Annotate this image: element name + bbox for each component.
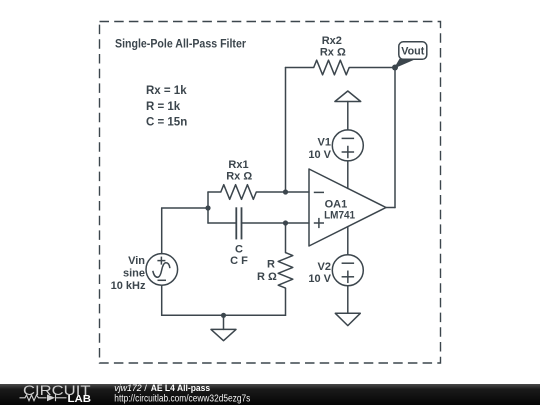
- resistor Rx1: [221, 185, 256, 200]
- wire: [347, 102, 349, 130]
- footer bar: [0, 384, 540, 405]
- wire: [207, 192, 209, 223]
- node junction: [283, 220, 288, 225]
- svg-text:http://circuitlab.com/ceww32d5: http://circuitlab.com/ceww32d5ezg7s: [114, 394, 250, 405]
- svg-text:10 kHz: 10 kHz: [111, 280, 146, 292]
- wire: [386, 207, 395, 209]
- ground: [335, 313, 360, 325]
- svg-text:Single-Pole All-Pass Filter: Single-Pole All-Pass Filter: [115, 39, 246, 51]
- voltage source V1: [332, 130, 363, 161]
- svg-text:Rx Ω: Rx Ω: [320, 47, 346, 59]
- svg-text:Vin: Vin: [128, 255, 145, 267]
- wire: [208, 222, 236, 224]
- svg-text:V2: V2: [318, 261, 331, 273]
- svg-text:Rx2: Rx2: [322, 35, 342, 47]
- svg-text:/: /: [144, 383, 147, 394]
- ground: [211, 329, 236, 340]
- svg-text:LM741: LM741: [324, 210, 355, 222]
- node junction: [205, 205, 210, 210]
- wire: [285, 68, 287, 193]
- wire: [242, 222, 286, 224]
- svg-text:LAB: LAB: [68, 394, 92, 405]
- CircuitLab logo: [20, 383, 92, 405]
- wire: [347, 161, 349, 189]
- wire: [162, 314, 286, 316]
- svg-text:vjw172: vjw172: [114, 383, 142, 394]
- svg-text:sine: sine: [123, 268, 145, 280]
- wire: [161, 285, 163, 315]
- voltage source V2: [332, 255, 363, 286]
- svg-text:10 V: 10 V: [308, 149, 331, 161]
- svg-text:Vout: Vout: [401, 46, 424, 58]
- capacitor C: [236, 207, 241, 239]
- svg-text:Rx Ω: Rx Ω: [226, 171, 252, 183]
- power supply arrow VCC: [335, 91, 361, 102]
- svg-text:R = 1k: R = 1k: [146, 101, 181, 113]
- resistor R: [278, 253, 293, 289]
- svg-text:10 V: 10 V: [308, 273, 331, 285]
- svg-text:Rx = 1k: Rx = 1k: [146, 85, 187, 97]
- footer title text: [114, 383, 210, 394]
- svg-text:R Ω: R Ω: [257, 271, 277, 283]
- resistor Rx2: [314, 60, 350, 75]
- voltage source Vin: [146, 254, 178, 286]
- svg-text:C = 15n: C = 15n: [146, 117, 187, 129]
- svg-text:AE L4 All-pass: AE L4 All-pass: [151, 383, 211, 394]
- wire: [286, 191, 310, 193]
- wire: [208, 191, 221, 193]
- node Vout junction: [392, 65, 398, 71]
- node flag Vout: [395, 42, 427, 68]
- wire: [347, 227, 349, 255]
- wire: [286, 67, 314, 69]
- svg-text:V1: V1: [318, 137, 331, 149]
- node junction: [283, 189, 288, 194]
- node junction: [221, 313, 226, 318]
- svg-text:C: C: [235, 244, 243, 256]
- wire: [285, 223, 287, 253]
- op-amp OA1: [309, 169, 386, 246]
- wire: [223, 315, 225, 329]
- wire: [347, 286, 349, 314]
- wire: [349, 67, 395, 69]
- wire: [285, 288, 287, 315]
- wire: [256, 191, 285, 193]
- wire: [286, 222, 310, 224]
- svg-text:Rx1: Rx1: [228, 159, 248, 171]
- wire: [162, 207, 208, 209]
- wire: [161, 208, 163, 254]
- wire: [394, 68, 396, 208]
- svg-text:C F: C F: [230, 255, 248, 267]
- svg-text:R: R: [267, 258, 275, 270]
